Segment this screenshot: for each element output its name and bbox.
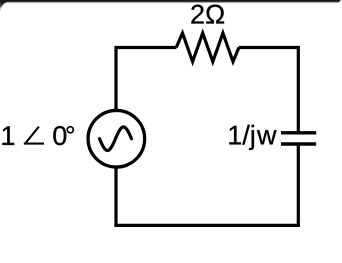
AC source V1 sine wave	[100, 127, 132, 151]
wire: capacitor to bottom-right corner	[297, 144, 300, 225]
serif foot of digit 1 (source label)	[2, 143, 12, 145]
value label 1/jw for capacitor C1	[229, 125, 276, 150]
resistor R1 zigzag	[176, 33, 239, 62]
wire: bottom horizontal	[114, 224, 300, 227]
serif foot of digit 1 (capacitor label)	[230, 143, 240, 145]
capacitor C1 bottom plate	[281, 142, 316, 145]
wire: resistor to capacitor (top-right horizontal + right vertical)	[239, 48, 299, 133]
value label 2Ω for resistor R1	[191, 5, 224, 24]
wire: source top to resistor (left vertical + top-left horizontal)	[116, 48, 176, 111]
capacitor C1 top plate	[281, 131, 316, 134]
degree symbol of source label	[67, 126, 75, 134]
value label 0° of source V1	[53, 126, 66, 145]
value label 1 ∠ 0° for source V1: digit 1	[3, 126, 15, 145]
wire: bottom-left to source bottom	[114, 167, 117, 227]
angle symbol ∠ of source label	[24, 127, 44, 144]
AC source V1 circle	[88, 110, 145, 167]
